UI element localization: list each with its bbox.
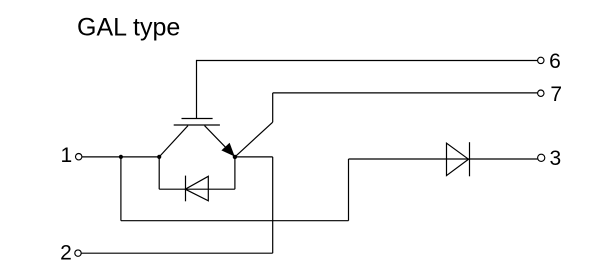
- wire emitter node to right corner: [235, 156, 273, 158]
- terminal 1 circle: [76, 154, 82, 160]
- wire freewheel diode horizontal: [159, 188, 235, 190]
- label 7: [550, 83, 562, 106]
- diode D1 cathode bar: [185, 176, 187, 202]
- terminal 2 circle: [75, 250, 81, 256]
- svg-text:2: 2: [60, 241, 72, 264]
- wire terminal 2 horizontal: [81, 252, 272, 254]
- wire freewheel diode right riser: [234, 157, 236, 189]
- wire aux-emitter horizontal to terminal 7: [273, 92, 538, 94]
- terminal 7 circle: [538, 90, 544, 96]
- wire gate top horizontal to terminal 6: [197, 60, 538, 62]
- junction dot B: [157, 155, 161, 159]
- op IGBT Q1 gate lead vertical: [196, 60, 198, 119]
- IGBT Q1 emitter lead diagonal: [205, 126, 235, 157]
- title "GAL type": [77, 13, 180, 41]
- label 1: [60, 144, 72, 167]
- terminal 6 circle: [538, 57, 544, 63]
- label 6: [549, 50, 561, 73]
- label 3: [549, 147, 561, 170]
- diode D1 triangle: [185, 176, 208, 201]
- wire emitter drop to terminal 2 run: [272, 157, 274, 253]
- IGBT Q1 emitter arrowhead: [221, 143, 234, 157]
- IGBT Q1 gate bar: [182, 118, 213, 120]
- svg-text:GAL type: GAL type: [77, 13, 180, 41]
- wire aux-emitter diagonal to emitter node: [235, 122, 273, 157]
- wire dot B vertical down to freewheel diode: [158, 157, 160, 189]
- wire diode branch to terminal 3: [349, 158, 538, 160]
- wire right riser up: [348, 159, 350, 221]
- terminal 3 circle: [538, 154, 545, 161]
- svg-text:3: 3: [549, 147, 561, 170]
- svg-text:7: 7: [550, 83, 562, 106]
- svg-text:6: 6: [549, 50, 561, 73]
- wire terminal 1 rail: [82, 156, 159, 158]
- wire bottom horizontal run: [121, 220, 349, 222]
- diode D2 cathode bar: [469, 142, 471, 176]
- wire dot A vertical down: [120, 157, 122, 221]
- label 2: [60, 241, 72, 264]
- svg-text:1: 1: [60, 144, 72, 167]
- IGBT Q1 collector lead diagonal: [159, 126, 188, 157]
- IGBT Q1 channel bar: [174, 124, 220, 126]
- junction dot A: [119, 155, 123, 159]
- wire aux-emitter vertical drop: [272, 93, 274, 122]
- diode D2 triangle: [447, 143, 469, 175]
- junction dot emitter node: [233, 155, 237, 159]
